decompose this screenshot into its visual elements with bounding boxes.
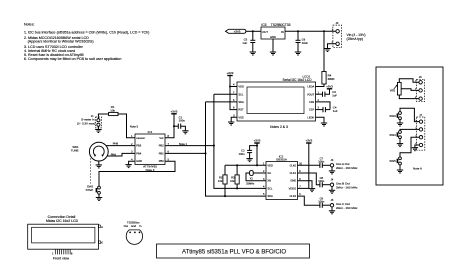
svg-text:GND: GND [270, 35, 276, 39]
svg-text:Out: Out [124, 224, 129, 228]
connector J2 power input [332, 21, 342, 48]
svg-text:PB1: PB1 [159, 151, 164, 155]
ground C1 [182, 130, 188, 132]
svg-text:Si5351A: Si5351A [276, 158, 287, 162]
svg-text:10k: 10k [218, 179, 223, 183]
junction backlight feed [323, 30, 325, 32]
svg-text:100n: 100n [318, 160, 324, 164]
label Osc C Out [336, 202, 358, 210]
ground IC1 [125, 164, 131, 166]
ground J7 [412, 147, 418, 149]
svg-text:1uF: 1uF [242, 41, 247, 45]
resistor R4 680R [322, 72, 335, 85]
LCD module LCD1 Serial I2C 16x2 [237, 75, 316, 122]
wire SDA bus vertical [206, 102, 267, 196]
wire regulator GND down [272, 39, 274, 52]
svg-text:1. I2C bus interface (si5351a: 1. I2C bus interface (si5351a address = … [24, 31, 149, 35]
svg-text:1uF: 1uF [333, 109, 338, 113]
ground C5 [250, 51, 256, 53]
svg-text:PB5/RST: PB5/RST [136, 138, 146, 140]
wire LCD SDA [206, 101, 238, 103]
wire J1 pin1 up to R1 [98, 114, 108, 119]
svg-text:TS2950xx: TS2950xx [127, 221, 140, 225]
svg-text:Gnd: Gnd [131, 224, 137, 228]
label Osc B Out [336, 182, 358, 190]
svg-text:IN: IN [281, 30, 284, 34]
svg-text:STEP: STEP [86, 188, 94, 192]
svg-text:100n: 100n [318, 179, 324, 183]
wire encoder common to ground [98, 161, 100, 165]
connector J7 [415, 113, 424, 150]
ground J4 [329, 189, 335, 191]
wire SW2 to PB0 [99, 161, 175, 186]
svg-text:R2: R2 [219, 176, 223, 180]
ground C6 [295, 51, 301, 53]
svg-text:RST: RST [238, 108, 244, 112]
svg-text:SCL: SCL [267, 186, 273, 190]
capacitor C2 100n [239, 146, 257, 159]
wire LCD SCL [214, 93, 237, 95]
wire VDD to LCD pin 4 [230, 86, 237, 88]
svg-text:10k: 10k [230, 179, 235, 183]
svg-text:+3V3: +3V3 [326, 84, 333, 88]
pin numbers LCD left [233, 84, 235, 118]
wire VOUT to C3 [316, 93, 323, 95]
ground J1 [95, 129, 101, 131]
capacitor C8 100n [318, 176, 330, 187]
junction SDA [204, 152, 206, 154]
LCD detail pins 1-8 [52, 249, 73, 255]
svg-text:(Appears identical to Winstar: (Appears identical to Winstar WO1602G) [28, 40, 94, 44]
ground IC2 [309, 188, 315, 190]
connector J6 [415, 75, 425, 102]
svg-text:VDD: VDD [238, 85, 244, 89]
ground LCD VSS [228, 121, 234, 123]
ground LEDK [321, 122, 327, 124]
wire CLK2 to C9 [298, 196, 320, 205]
svg-text:+3V3: +3V3 [254, 139, 261, 143]
svg-text:GND: GND [290, 179, 296, 183]
wire SW5 to J7 pin3 [400, 137, 419, 157]
rotary encoder SW1 TUNE [71, 142, 108, 161]
svg-text:ATtiny85 si5351a PLL VFO & BFO: ATtiny85 si5351a PLL VFO & BFO/CIO [182, 250, 286, 256]
ground SW4 [397, 143, 403, 145]
LCD connection detail drawing [28, 215, 99, 249]
label Vin rating [347, 33, 366, 41]
wire R1 to PB5/RST pin 1 [118, 114, 135, 138]
power +3V3 LCD VDD [227, 71, 234, 86]
wire LEDK to ground [316, 117, 325, 123]
wire SW3 to ground [399, 120, 401, 123]
wire IC1 GND to ground [129, 161, 135, 164]
svg-text:PB2: PB2 [159, 144, 164, 148]
regulator IC3 TS2950CT33 [261, 23, 291, 39]
front panel detail box [376, 67, 443, 185]
svg-text:Note 1: Note 1 [179, 142, 188, 146]
pin numbers IC2 [263, 162, 303, 196]
connector J5 Osc C output [330, 199, 334, 211]
label Osc A Out [336, 162, 358, 170]
capacitor C1 100n [174, 115, 185, 131]
svg-text:VOUT: VOUT [307, 92, 315, 96]
svg-text:+3V3: +3V3 [227, 71, 234, 75]
svg-text:SCL: SCL [238, 92, 244, 96]
wire +3V3 to IC2 VDD [225, 164, 266, 166]
wire SCL bus vertical [214, 94, 266, 188]
ground J2 [324, 48, 330, 50]
power +3V3 at C3 [327, 88, 332, 89]
TS2950 pinout detail [124, 221, 143, 245]
svg-text:CLK2: CLK2 [290, 194, 297, 198]
notes text block [24, 23, 149, 62]
wire Vin down to R4 [323, 31, 325, 71]
svg-text:K: K [101, 241, 103, 245]
svg-text:10k: 10k [110, 109, 115, 113]
ground SW2 [96, 197, 102, 199]
svg-text:TUNE: TUNE [71, 149, 79, 153]
svg-text:2kHz - 160 MHz: 2kHz - 160 MHz [336, 206, 358, 210]
svg-text:SW5: SW5 [389, 159, 396, 163]
svg-text:SW4: SW4 [389, 133, 396, 137]
wire C1N [316, 102, 331, 110]
svg-text:C1N: C1N [309, 100, 314, 104]
ground regulator [270, 51, 276, 53]
svg-text:GND: GND [136, 159, 142, 163]
LCD detail backlight tabs [99, 225, 104, 245]
connector J1 S-meter input [91, 114, 102, 128]
svg-text:XA: XA [267, 171, 271, 175]
svg-text:Front view: Front view [53, 256, 70, 260]
svg-text:25MHz: 25MHz [246, 182, 255, 186]
svg-text:VDDO: VDDO [289, 186, 297, 190]
power +3V3 MCU [165, 109, 178, 137]
svg-text:680R: 680R [328, 77, 335, 81]
ground encoder [96, 164, 102, 166]
svg-text:PHB: PHB [113, 142, 119, 146]
wire CLK1 to C8 [298, 173, 320, 185]
capacitor C3 1uF [323, 89, 338, 97]
push switch SW3 [389, 112, 401, 120]
svg-text:Note 6: Note 6 [413, 167, 422, 171]
svg-text:100n: 100n [179, 119, 186, 123]
svg-text:2kHz - 160 MHz: 2kHz - 160 MHz [336, 166, 358, 170]
junction C6 [297, 30, 299, 32]
svg-text:100n: 100n [239, 152, 245, 156]
svg-text:Vcc: Vcc [159, 136, 164, 140]
wire IC2 GND pin to ground [298, 181, 313, 189]
svg-text:Notes:: Notes: [24, 23, 35, 27]
resistor R3 10k pull-up SCL [230, 165, 239, 188]
junction LCD VDD [229, 85, 231, 87]
wire J7 pin4 to ground [415, 145, 419, 148]
pin numbers LCD right [318, 91, 320, 109]
PLL synthesizer IC2 Si5351A [266, 154, 298, 199]
svg-text:VSS: VSS [238, 115, 243, 119]
wire R4 to LCD LEDA pin [316, 84, 325, 87]
mechanical link encoder shaft to SW2 [90, 158, 92, 183]
svg-text:VDD: VDD [267, 163, 273, 167]
junction C5 [252, 30, 254, 32]
svg-text:Serial I2C 16x2 LCD: Serial I2C 16x2 LCD [282, 78, 312, 82]
net label +3V3 (regulator output) [226, 29, 246, 33]
svg-text:IC1: IC1 [148, 130, 153, 134]
svg-text:X1: X1 [250, 177, 254, 181]
svg-text:100n: 100n [318, 199, 324, 203]
crystal X1 25MHz [246, 171, 266, 186]
svg-text:A: A [101, 225, 103, 229]
svg-text:1uF: 1uF [332, 93, 337, 97]
push switch SW5 [389, 157, 401, 165]
svg-text:(0 - 3.3V max): (0 - 3.3V max) [77, 121, 95, 125]
svg-text:IC3: IC3 [261, 23, 266, 27]
capacitor C4 1uF [323, 105, 338, 112]
ground C2 [246, 158, 252, 160]
svg-text:6. Components may be fitted on: 6. Components may be fitted on PCB to su… [24, 57, 121, 61]
ground J3 [329, 170, 335, 172]
svg-text:+3V3: +3V3 [234, 30, 241, 34]
svg-text:LEDA: LEDA [307, 85, 314, 89]
svg-text:J7: J7 [419, 113, 422, 117]
wire J1 pin2 to ground [97, 126, 99, 129]
resistor R1 10k [109, 105, 118, 115]
capacitor C5 1uF [242, 31, 255, 52]
svg-text:J6: J6 [419, 75, 422, 79]
svg-text:SW3: SW3 [389, 114, 396, 118]
junction C1 [173, 125, 175, 127]
wire SW3 to J7 pin1 [400, 108, 419, 121]
wire PB2 SCL to bus [165, 142, 214, 146]
junction R3 top [236, 164, 238, 166]
label S-meter In [77, 118, 95, 126]
svg-text:R3: R3 [231, 176, 235, 180]
connector J3 Osc A output [330, 159, 334, 171]
pin numbers IC1 [131, 135, 169, 161]
wire VR1 top to J6 pin1 [399, 79, 419, 83]
svg-text:PB0: PB0 [159, 159, 164, 163]
wire encoder PHA to PB4 [107, 152, 135, 156]
junction SCL [213, 145, 215, 147]
junction C2 [256, 145, 258, 147]
svg-text:PHA: PHA [111, 152, 117, 156]
wire encoder PHB to PB3 [106, 142, 135, 146]
svg-text:PB4: PB4 [136, 151, 141, 155]
potentiometer VR1 [390, 82, 401, 95]
wire J2 pin2 to ground [328, 44, 336, 49]
resistor R2 10k pull-up SDA [218, 165, 227, 196]
svg-text:SDA: SDA [267, 194, 273, 198]
wire SW5 to ground [399, 165, 401, 170]
svg-text:VR1: VR1 [390, 89, 396, 93]
capacitor C9 100n [318, 196, 330, 207]
capacitor C6 10uF [296, 31, 309, 52]
svg-text:(25mA typ): (25mA typ) [347, 37, 363, 41]
MCU IC1 ATtiny85 [135, 130, 165, 172]
svg-text:CLK0: CLK0 [290, 163, 297, 167]
wire C1P to C4 [316, 109, 324, 111]
svg-text:TS2950CT33: TS2950CT33 [271, 23, 291, 27]
wire LCD VSS to ground [231, 117, 237, 122]
ground J5 [329, 210, 335, 212]
wire regulator IN to J2 pin 1 [285, 30, 336, 32]
svg-text:+3V3: +3V3 [171, 109, 178, 113]
wire VR1 wiper to J6 pin2 [401, 89, 419, 91]
wire PB1 SDA to bus [165, 152, 206, 154]
svg-text:PB3: PB3 [136, 144, 141, 148]
svg-text:Notes 2 & 3: Notes 2 & 3 [270, 125, 288, 129]
junction 3V3 rail [256, 164, 258, 166]
junction R3 SCL [236, 187, 238, 189]
svg-text:2kHz - 160 MHz: 2kHz - 160 MHz [336, 185, 358, 189]
wire +3V3 rail down to RST pin 8 [230, 87, 237, 110]
svg-text:OUT: OUT [262, 30, 268, 34]
connector J4 Osc B output [330, 179, 334, 191]
capacitor C7 100n [318, 157, 330, 168]
svg-text:C1P: C1P [309, 108, 314, 112]
push switch SW2 STEP [86, 184, 101, 197]
power +3V3 si5351 [254, 139, 261, 166]
wire SW4 to J7 pin2 [400, 129, 419, 130]
junction R2 SDA [224, 195, 226, 197]
svg-text:Note 5: Note 5 [130, 124, 139, 128]
svg-text:J2: J2 [336, 21, 339, 25]
svg-text:XB: XB [267, 179, 271, 183]
wire +3V3 tag to regulator OUT [246, 30, 261, 32]
wire SW4 to ground [399, 139, 401, 144]
svg-text:SDA: SDA [238, 100, 244, 104]
ground SW5 [397, 169, 403, 171]
wire VR1 bottom to J6 pin3 [399, 95, 419, 99]
power +3V3 VDDO [298, 139, 313, 189]
ground SW3 [397, 122, 403, 124]
title block [157, 244, 310, 258]
svg-text:+3V3: +3V3 [305, 139, 312, 143]
push switch SW4 [389, 131, 401, 139]
svg-text:CLK1: CLK1 [290, 171, 297, 175]
svg-text:10uF: 10uF [302, 41, 309, 45]
wire CLK0 to C7 [298, 164, 320, 166]
svg-text:Midas I2C 16x2 LCD: Midas I2C 16x2 LCD [46, 219, 79, 223]
svg-text:LEDK: LEDK [307, 115, 314, 119]
